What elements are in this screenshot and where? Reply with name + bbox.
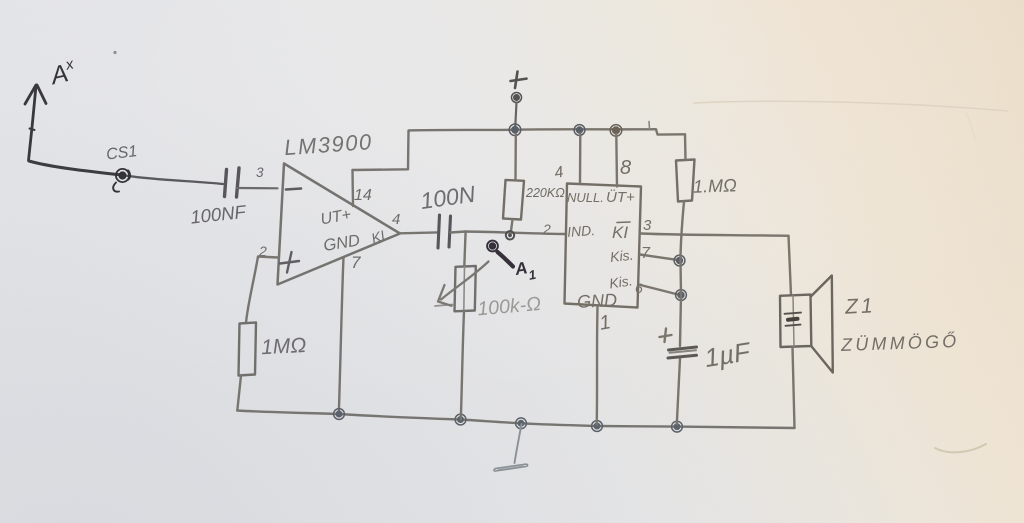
wire R3 to node 2 — [511, 220, 513, 232]
V+ rail — [513, 129, 685, 134]
wire R1 to ground rail — [237, 376, 241, 411]
wire IC pin7 to node — [640, 255, 677, 260]
svg-text:7: 7 — [351, 253, 361, 272]
supply junction blob — [512, 93, 522, 103]
junction pin7 / R4 line — [674, 255, 685, 266]
overline on KI — [617, 221, 630, 224]
wire op-amp output to C2 — [400, 231, 438, 234]
buzzer cone — [811, 276, 833, 373]
op-amp minus input mark — [286, 189, 301, 190]
svg-text:14: 14 — [354, 187, 372, 204]
op-amp plus input mark — [280, 252, 299, 273]
svg-text:7: 7 — [641, 245, 651, 262]
wire R4 down through nodes to C3 — [680, 202, 684, 347]
svg-text:6: 6 — [635, 280, 643, 296]
junction ground stem / rail — [516, 418, 527, 429]
buzzer inner lead — [793, 296, 794, 347]
wire C1 to op-amp pin 3 — [237, 187, 278, 190]
wire antenna to node CS1 (dark segment) — [29, 161, 122, 175]
svg-text:Kis.: Kis. — [609, 247, 634, 265]
wire pin14 staircase to V+ rail — [353, 130, 514, 170]
buzzer Z1 body — [780, 295, 811, 347]
svg-text:2: 2 — [542, 221, 551, 237]
wire IC pin4 to rail — [579, 134, 582, 185]
wire IC pin6 to node — [639, 285, 679, 295]
junction IC pin1 / rail — [592, 421, 603, 432]
svg-text:1.MΩ: 1.MΩ — [693, 175, 738, 197]
junction pin6 / R4 line — [676, 290, 687, 301]
svg-text:1MΩ: 1MΩ — [261, 334, 307, 359]
wire buzzer to ground rail — [793, 347, 795, 428]
wire R2 to ground rail — [461, 311, 464, 419]
capacitor C2 100N — [438, 215, 451, 248]
junction supply / rail — [509, 124, 521, 136]
wire op-amp pin 14 riser — [351, 170, 354, 206]
buzzer element stripes — [785, 313, 802, 326]
stray pencil speck — [113, 51, 116, 54]
wire op-amp pin 7 to ground rail — [339, 258, 344, 414]
faint crease right edge — [966, 112, 975, 140]
wire IC pin8 to rail — [615, 134, 618, 187]
potentiometer R2 100k — [455, 266, 476, 311]
capacitor C3 1uF plus mark — [660, 329, 672, 343]
svg-text:220KΩ: 220KΩ — [525, 186, 565, 200]
resistor R3 220K — [503, 180, 524, 220]
capacitor C1 100NF — [225, 168, 240, 197]
wire supply to V+ rail — [515, 103, 516, 127]
wire C2 to node 2 of IC — [451, 232, 567, 235]
svg-text:ZÜMMÖGŐ: ZÜMMÖGŐ — [840, 330, 960, 355]
svg-text:8: 8 — [620, 157, 631, 179]
rail overshoot tick — [648, 122, 651, 130]
potentiometer wiper arrow — [435, 262, 489, 307]
faint pencil trace top right — [694, 101, 1008, 111]
wire tap down to 100k — [464, 232, 465, 267]
ground rail (bottom wire) — [237, 411, 794, 429]
label A^x — [46, 55, 79, 90]
wire IC pin1 to ground rail — [596, 308, 599, 425]
svg-text:ÜT+: ÜT+ — [606, 188, 635, 206]
V+ supply symbol — [511, 72, 527, 89]
node 2 junction ring — [506, 231, 514, 239]
wire op-amp pin 2 to resistor R1 — [246, 257, 278, 323]
resistor R4 1M (right) — [676, 160, 695, 202]
capacitor C3 1uF plates — [668, 347, 697, 358]
junction C3 / rail — [672, 421, 683, 432]
svg-text:IND.: IND. — [567, 222, 596, 240]
op-amp U1 LM3900 — [278, 164, 401, 285]
junction IC pin8 / rail — [610, 125, 622, 137]
probe point A1 (ink) — [487, 241, 513, 267]
junction IC pin4 / rail — [574, 125, 585, 136]
wire IC pin3 to buzzer — [641, 234, 789, 236]
ground symbol — [494, 424, 528, 471]
svg-text:NULL.: NULL. — [567, 190, 604, 205]
potentiometer inner lead — [463, 267, 466, 312]
IC U2 box — [565, 184, 642, 308]
wire node CS1 to capacitor C1 — [122, 175, 223, 184]
antenna A (arrow symbol) — [25, 85, 46, 161]
junction 100k / rail — [455, 414, 466, 425]
svg-text:Kis.: Kis. — [608, 272, 633, 291]
wire rail to R4 — [684, 134, 687, 160]
svg-text:3: 3 — [256, 165, 264, 180]
node CS1 junction blob — [113, 169, 130, 192]
svg-text:KI: KI — [612, 223, 628, 242]
resistor R1 1M (left) — [239, 323, 257, 376]
faint smudge bottom right — [935, 444, 986, 452]
svg-text:Z1: Z1 — [843, 294, 876, 319]
wire R3 to V+ rail — [514, 134, 517, 180]
junction op-amp pin7 / rail — [334, 409, 345, 420]
svg-text:3: 3 — [643, 217, 652, 234]
wire C3 to ground rail — [677, 359, 680, 425]
svg-text:4: 4 — [392, 211, 400, 228]
wire pin3 net down to buzzer — [789, 236, 792, 295]
